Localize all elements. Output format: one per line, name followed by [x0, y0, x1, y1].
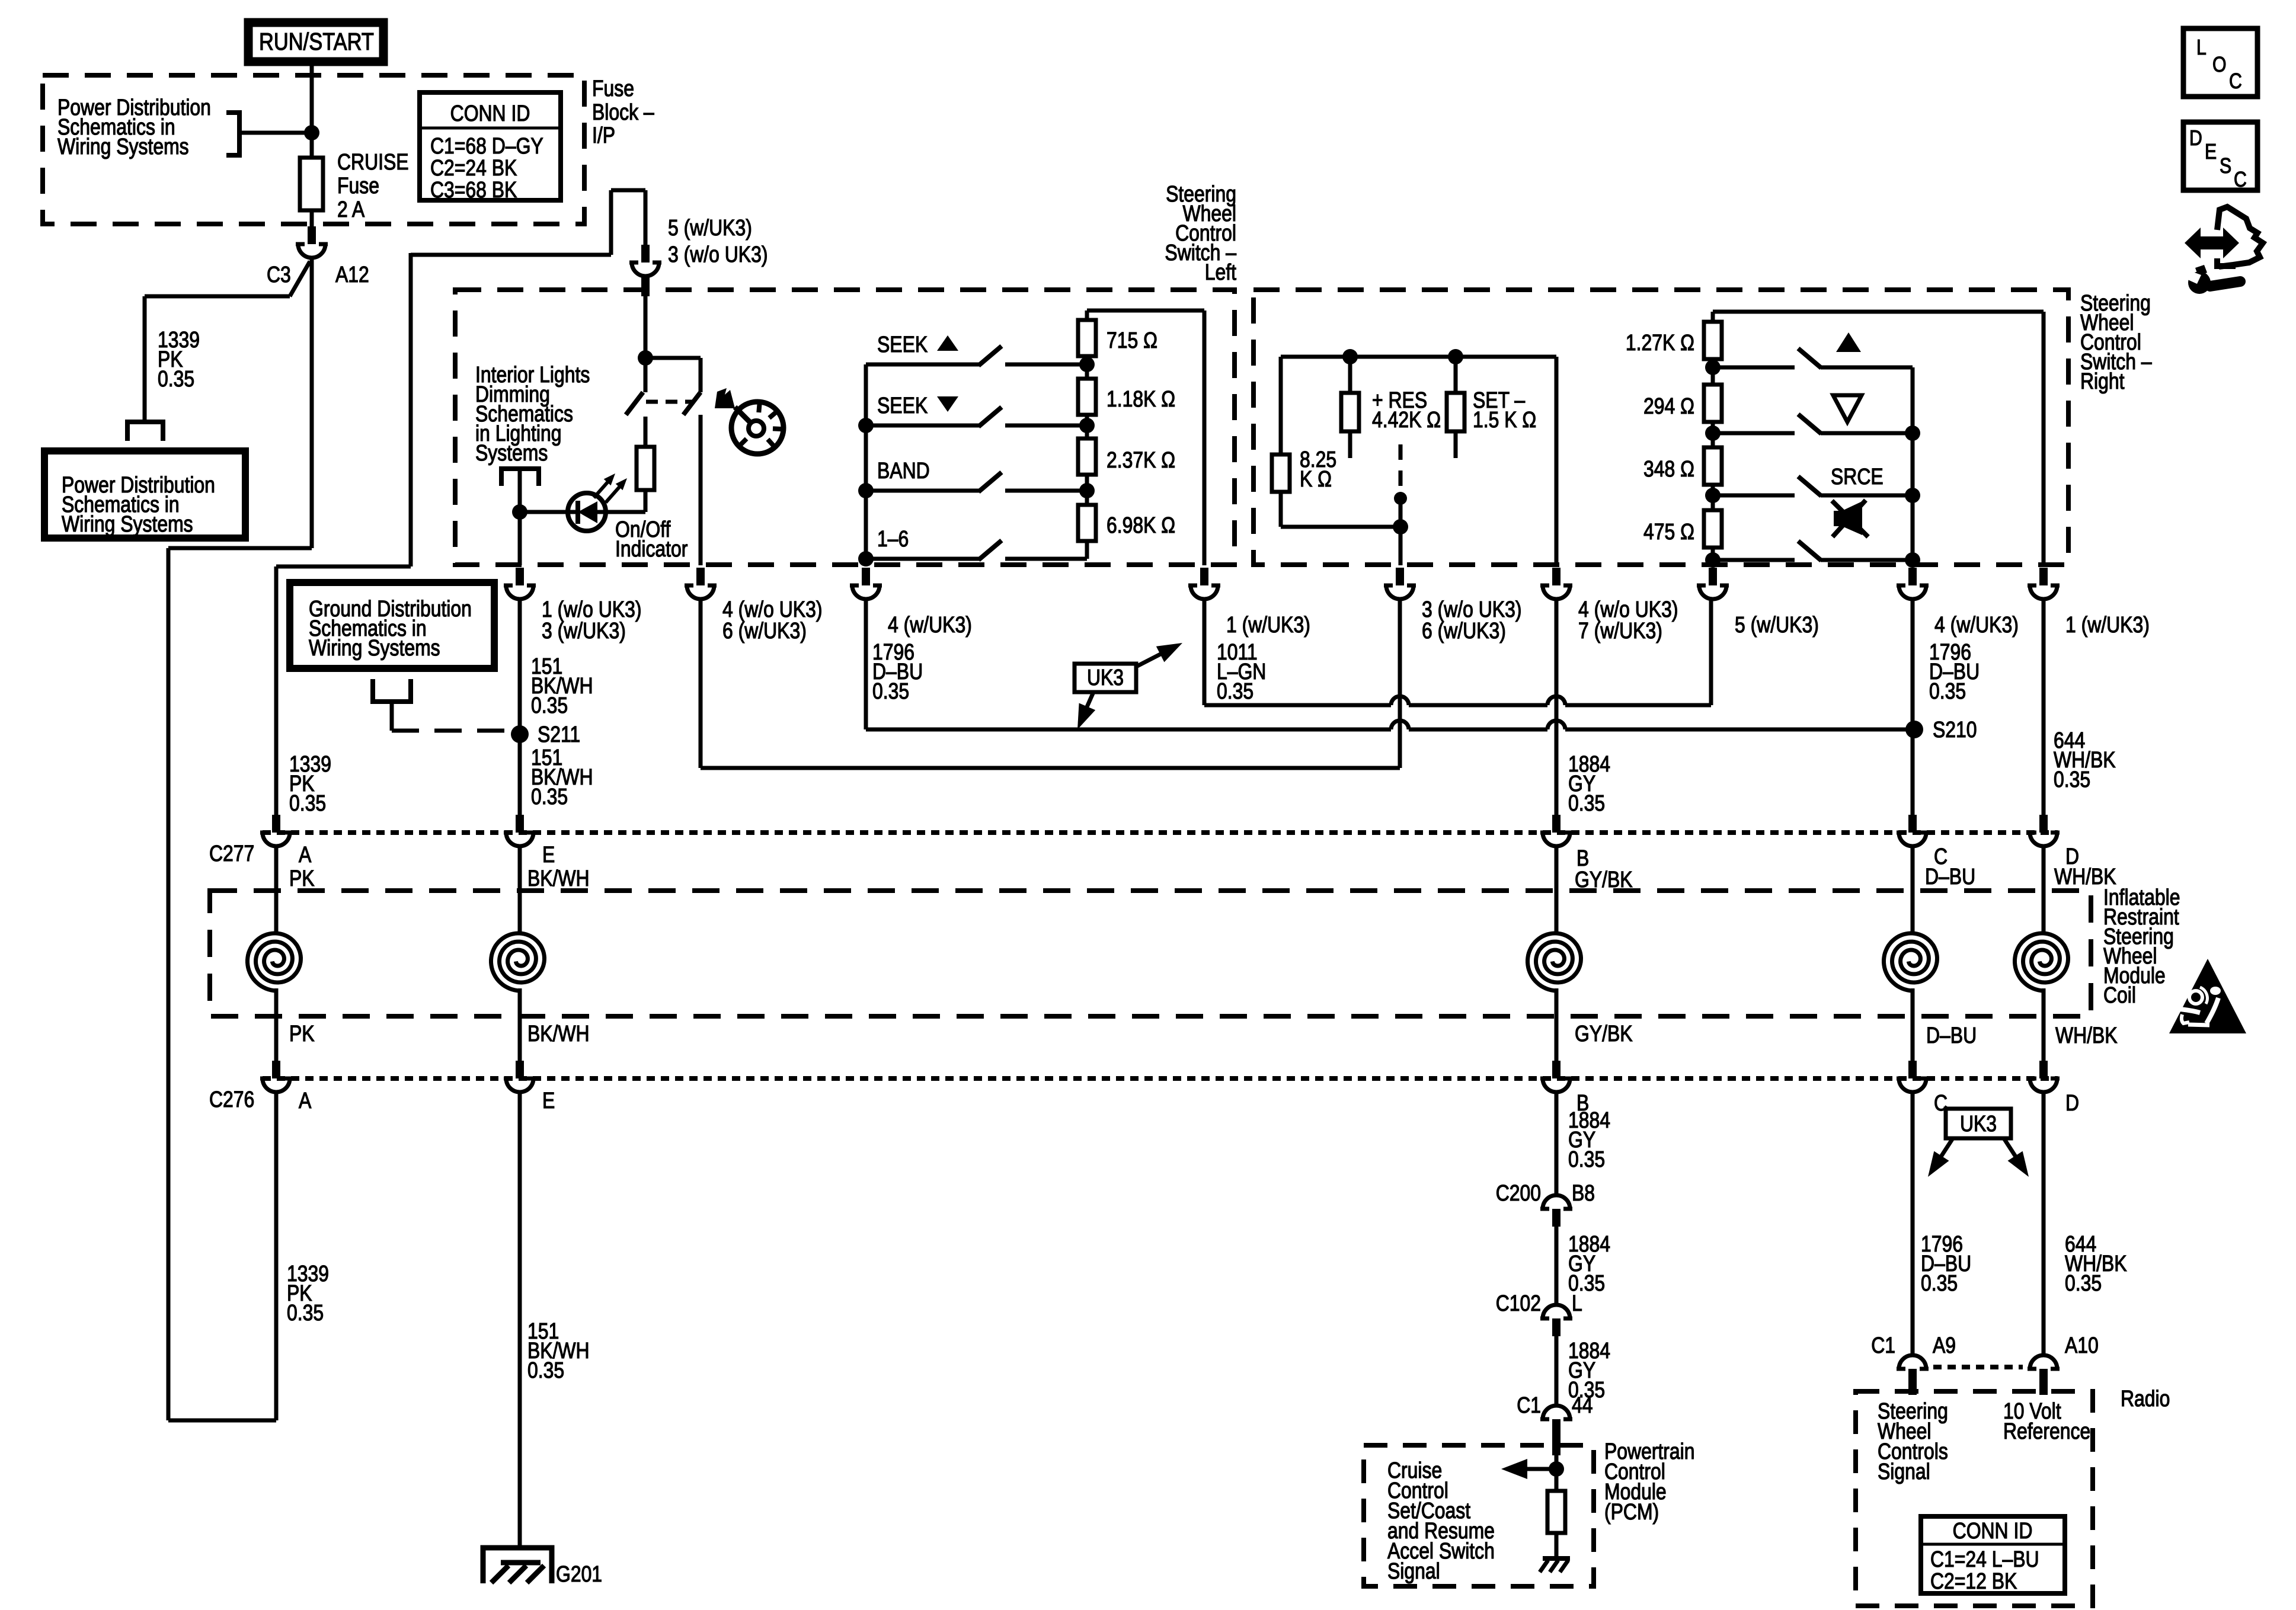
junction dot ladder 1.18K — [1079, 418, 1095, 433]
svg-text:PK: PK — [289, 866, 315, 891]
svg-text:BAND: BAND — [877, 458, 930, 483]
resistor 8.25K ohm — [1272, 454, 1290, 492]
connector C276 pin E — [504, 1061, 536, 1092]
resistor 1.18K ohm — [1078, 379, 1096, 415]
svg-text:7 (w/UK3): 7 (w/UK3) — [1578, 618, 1662, 643]
resistor 6.98K ohm — [1078, 505, 1096, 541]
junction dots right bus — [1905, 425, 1920, 441]
resistor 348 ohm — [1704, 447, 1722, 485]
power feed box RUN/START — [248, 23, 383, 62]
connector C3/A12 at fuse block — [296, 226, 328, 258]
wire right box right rail — [1555, 357, 1559, 565]
junction dot ladder 715 — [1079, 357, 1095, 372]
svg-text:294 Ω: 294 Ω — [1643, 393, 1694, 418]
wire A12 long left vertical — [167, 548, 171, 1420]
wire resistor to LED — [644, 490, 648, 512]
switch row mute — [1713, 558, 1795, 562]
svg-text:1.5 K Ω: 1.5 K Ω — [1473, 407, 1536, 432]
wire A12 jog left — [168, 546, 312, 550]
svg-text:SEEK: SEEK — [877, 393, 928, 418]
svg-text:C1=24 L–BU: C1=24 L–BU — [1930, 1547, 2039, 1571]
wire line3 link — [701, 766, 1400, 770]
connector pin 1 (w/o UK3) at x=877 — [504, 568, 536, 599]
svg-text:UK3: UK3 — [1087, 665, 1124, 690]
svg-text:S210: S210 — [1933, 717, 1977, 742]
svg-text:1 (w/UK3): 1 (w/UK3) — [2065, 612, 2150, 637]
wire ladder segment 2 — [1085, 425, 1089, 438]
svg-text:3 (w/UK3): 3 (w/UK3) — [542, 618, 626, 643]
svg-text:Coil: Coil — [2103, 982, 2136, 1007]
wire A12 bottom jog right — [168, 1419, 276, 1423]
wire line3 right pole down — [1398, 599, 1402, 768]
switch row 1-6 — [866, 557, 979, 561]
icon triangle down — [1833, 395, 1862, 422]
wire pole 4wUK3 down to C277-C — [1911, 599, 1915, 815]
linkage dashes cruise switch — [1399, 444, 1403, 497]
connector C276 pin D — [2028, 1061, 2060, 1092]
wire out of coil E — [518, 988, 522, 1061]
svg-text:Fuse: Fuse — [592, 76, 634, 101]
dashed box Steering Wheel Control Switch - Right — [1253, 290, 2068, 565]
svg-text:0.35: 0.35 — [531, 693, 568, 718]
svg-text:Wiring Systems: Wiring Systems — [309, 635, 440, 660]
junction dot rladder1 — [1705, 360, 1721, 375]
connector C276 pin C — [1897, 1061, 1929, 1092]
svg-text:0.35: 0.35 — [287, 1300, 324, 1325]
wire up to C276 pin A — [274, 1092, 279, 1420]
svg-text:C1: C1 — [1517, 1393, 1541, 1417]
wire 8.25K branch — [1279, 357, 1283, 454]
resistor on/off indicator — [637, 447, 654, 490]
junction dot rladder2 — [1705, 425, 1721, 441]
dimmer switch linkage dashes — [646, 400, 692, 404]
connector pin 4 (w/UK3) at x=3227 — [1897, 568, 1929, 599]
wire 1339 PK horizontal — [145, 295, 290, 299]
svg-text:E: E — [2205, 140, 2217, 164]
resistor 2.37K ohm — [1078, 438, 1096, 475]
svg-text:Indicator: Indicator — [615, 536, 688, 561]
svg-text:D: D — [2065, 1090, 2079, 1115]
svg-text:C200: C200 — [1496, 1180, 1541, 1205]
icon triangle up — [1836, 332, 1861, 352]
wire switch feed jog to C277-A — [276, 565, 411, 569]
svg-text:D–BU: D–BU — [1925, 864, 1975, 889]
wire pole 4/7 down to C277-B — [1555, 599, 1559, 815]
connector pin 5 (w/UK3) at x=2890 — [1697, 568, 1729, 599]
wire out of coil C — [1911, 988, 1915, 1061]
reference bracket to power distribution box — [127, 422, 163, 441]
UK3 callout box — [1075, 664, 1136, 692]
switch row volume down — [1713, 431, 1795, 436]
junction dot dimmer feed — [638, 350, 653, 366]
gauge icon (dimming) — [731, 402, 784, 454]
wire resistor to chassis ground — [1555, 1533, 1559, 1558]
wire seek bus vertical — [864, 364, 868, 565]
wire SET lower stub — [1454, 431, 1458, 458]
svg-text:Systems: Systems — [475, 440, 548, 465]
svg-text:5 (w/UK3): 5 (w/UK3) — [1735, 612, 1819, 637]
svg-text:K Ω: K Ω — [1300, 466, 1332, 491]
wire into coil B — [1555, 846, 1559, 932]
svg-text:Right: Right — [2080, 369, 2125, 393]
svg-text:RUN/START: RUN/START — [259, 28, 374, 55]
UK3 arrow upper — [1136, 646, 1176, 667]
wire dimmer right pole down — [699, 415, 703, 565]
svg-text:C3=68 BK: C3=68 BK — [430, 177, 517, 202]
reference bracket ground distribution — [373, 679, 411, 702]
svg-text:0.35: 0.35 — [158, 366, 194, 391]
wire rladder seg2 — [1711, 422, 1715, 447]
svg-text:A: A — [299, 842, 312, 867]
resistor PCM pullup — [1547, 1491, 1565, 1533]
svg-text:5 (w/UK3): 5 (w/UK3) — [668, 215, 752, 240]
wire C200 to C102 — [1555, 1227, 1559, 1305]
switch row SRCE — [1713, 494, 1795, 498]
connector radio C1 pin A9 — [1897, 1355, 1929, 1387]
LED on/off indicator — [568, 493, 606, 531]
chassis ground PCM — [1543, 1556, 1570, 1561]
svg-text:0.35: 0.35 — [2065, 1270, 2102, 1295]
svg-text:PK: PK — [289, 1021, 315, 1046]
wire E to ground G201 — [518, 1092, 522, 1549]
junction dot rladder4 — [1705, 552, 1721, 568]
svg-text:0.35: 0.35 — [527, 1358, 564, 1382]
wire switch feed vertical left — [409, 253, 413, 566]
dashed box Steering Wheel Control Switch - Left — [455, 290, 1235, 565]
dotted line C277 harness — [263, 830, 2058, 835]
wire line3 left pole down — [699, 599, 703, 768]
resistor 475 ohm — [1704, 510, 1722, 548]
icon DESC box — [2183, 122, 2257, 190]
connector C277 pin A — [260, 815, 292, 846]
svg-text:Signal: Signal — [1387, 1558, 1440, 1583]
wire right ladder top — [1711, 312, 1715, 322]
icon double arrow with component outline — [2185, 228, 2239, 258]
svg-text:E: E — [542, 842, 555, 867]
wire 8.25K to common — [1279, 492, 1283, 527]
resistor +RES 4.42K — [1341, 393, 1359, 431]
junction dot rladder3 — [1705, 488, 1721, 503]
svg-text:1 (w/UK3): 1 (w/UK3) — [1226, 612, 1310, 637]
svg-text:UK3: UK3 — [1960, 1111, 1997, 1136]
junction dot ladder 2.37K — [1079, 483, 1095, 498]
wire SET branch — [1454, 357, 1458, 393]
svg-text:1.18K Ω: 1.18K Ω — [1107, 386, 1175, 411]
wire dimmer right branch — [645, 356, 701, 360]
connector C277 pin C — [1897, 815, 1929, 846]
wire switch feed up jog — [609, 190, 613, 255]
svg-text:4.42K Ω: 4.42K Ω — [1372, 407, 1441, 432]
switch row SEEK down — [866, 424, 979, 428]
wire rladder seg3 — [1711, 485, 1715, 510]
connector C102 pin L — [1540, 1305, 1572, 1336]
svg-text:S: S — [2220, 155, 2231, 178]
svg-text:Fuse: Fuse — [337, 173, 379, 198]
junction dot PCM signal — [1549, 1461, 1564, 1477]
svg-text:GY/BK: GY/BK — [1575, 1021, 1633, 1046]
svg-text:Block –: Block – — [592, 100, 654, 124]
svg-text:L: L — [2196, 36, 2207, 60]
wire line1 5-pole down — [1709, 599, 1713, 705]
svg-text:3 (w/o UK3): 3 (w/o UK3) — [668, 242, 768, 267]
wire ladder segment 1 — [1085, 364, 1089, 379]
coil A (SDM coil) — [248, 933, 301, 991]
svg-text:715 Ω: 715 Ω — [1107, 328, 1157, 353]
terminal stub at left box edge — [641, 277, 650, 296]
svg-text:Left: Left — [1205, 260, 1236, 284]
svg-text:2 A: 2 A — [337, 197, 365, 222]
svg-text:Reference: Reference — [2003, 1419, 2090, 1443]
junction dot SET — [1448, 349, 1463, 364]
svg-text:C1=68 D–GY: C1=68 D–GY — [430, 133, 543, 158]
svg-text:0.35: 0.35 — [1568, 790, 1605, 815]
svg-text:C: C — [2234, 168, 2247, 192]
svg-text:C2=24 BK: C2=24 BK — [430, 155, 517, 180]
svg-text:O: O — [2212, 53, 2227, 77]
wire ladder segment 3 — [1085, 491, 1089, 505]
svg-text:1.27K Ω: 1.27K Ω — [1626, 330, 1694, 355]
wire D to radio A10 — [2042, 1092, 2046, 1356]
wire line1 1011 L-GN — [1204, 703, 1391, 708]
junction dot linkage — [1394, 492, 1407, 505]
svg-text:A10: A10 — [2065, 1333, 2099, 1358]
svg-text:E: E — [542, 1088, 555, 1113]
svg-text:CONN ID: CONN ID — [450, 101, 530, 126]
resistor 715 ohm — [1085, 356, 1089, 364]
icon mute speaker — [1834, 501, 1862, 535]
svg-text:(PCM): (PCM) — [1604, 1499, 1659, 1524]
svg-text:A: A — [299, 1088, 312, 1113]
wire pole 1/3 to S211 — [518, 599, 522, 815]
UK3 arrow lower — [1080, 692, 1093, 723]
coil D (SDM coil) — [2015, 933, 2068, 991]
svg-text:C276: C276 — [209, 1087, 254, 1112]
reference box Ground Distribution Schematics in Wiring Systems — [290, 582, 494, 668]
wire line2 1796 D-BU — [866, 728, 1391, 732]
reference box Power Distribution Schematics in Wiring Systems — [44, 451, 245, 538]
wire +RES lower stub — [1348, 431, 1352, 458]
switch row volume up — [1713, 366, 1795, 370]
junction dots seek bus — [858, 418, 874, 433]
svg-text:B8: B8 — [1572, 1180, 1595, 1205]
svg-text:Wiring Systems: Wiring Systems — [57, 134, 189, 159]
switch row SEEK up — [866, 363, 979, 367]
svg-text:Radio: Radio — [2121, 1386, 2170, 1411]
svg-text:0.35: 0.35 — [531, 784, 568, 809]
svg-text:475 Ω: 475 Ω — [1643, 519, 1694, 544]
wire 1339 PK vertical — [143, 296, 147, 422]
connector C200 pin B8 — [1540, 1195, 1572, 1227]
terminal stub at PCM box edge — [1552, 1436, 1560, 1455]
wire blade to on/off resistor — [644, 417, 648, 447]
wire RUN/START to fuse — [310, 60, 314, 158]
wire line1 1011 pole down — [1203, 599, 1207, 705]
wire into coil D — [2042, 846, 2046, 932]
svg-text:A9: A9 — [1933, 1333, 1956, 1358]
svg-text:BK/WH: BK/WH — [527, 866, 590, 891]
svg-text:C1: C1 — [1871, 1333, 1895, 1358]
wire C102 to C1 — [1555, 1336, 1559, 1406]
wire 1339 PK diagonal from C3 — [290, 261, 310, 296]
svg-text:0.35: 0.35 — [289, 790, 326, 815]
wire C to radio C1/A9 — [1911, 1092, 1915, 1356]
connector C277 pin D — [2028, 815, 2060, 846]
wire C1 into PCM — [1555, 1437, 1559, 1491]
node junction dot at fuse feed — [304, 125, 319, 140]
dashed box Radio — [1856, 1391, 2093, 1606]
svg-text:0.35: 0.35 — [1568, 1147, 1605, 1172]
svg-text:0.35: 0.35 — [1921, 1270, 1958, 1295]
connector C277 pin E — [504, 815, 536, 846]
connector radio pin A10 — [2028, 1355, 2060, 1387]
connector pin 4 (w/UK3) at x=1461 — [850, 568, 882, 599]
wire A9 stub into radio — [1908, 1385, 1917, 1395]
resistor 294 ohm — [1704, 385, 1722, 422]
dashed box Powertrain Control Module — [1364, 1445, 1594, 1586]
connector pin 1 (w/UK3) at x=2032 — [1188, 568, 1220, 599]
connector C1 pin 44 (PCM) — [1540, 1406, 1572, 1437]
wire out of coil D — [2042, 988, 2046, 1061]
splice S210 — [1905, 721, 1923, 738]
dimmer switch blade left — [626, 392, 643, 415]
svg-text:Signal: Signal — [1878, 1459, 1930, 1484]
wire out of coil B — [1555, 988, 1559, 1061]
resistor 1.27K ohm — [1704, 322, 1722, 359]
svg-text:C: C — [2229, 70, 2242, 94]
wire A10 stub into radio — [2039, 1385, 2048, 1395]
connector 5 (w/UK3) input — [629, 245, 661, 276]
wire right box top rail — [1281, 355, 1556, 359]
wire pole 1wUK3 down to C277-D — [2042, 599, 2046, 815]
svg-text:4 (w/UK3): 4 (w/UK3) — [888, 612, 972, 637]
svg-text:0.35: 0.35 — [2054, 767, 2090, 792]
wire PCM arrow branch — [1521, 1467, 1556, 1471]
svg-text:CONN ID: CONN ID — [1953, 1518, 2033, 1543]
icon LOC box — [2183, 28, 2257, 97]
wire fuse to C3 connector — [310, 210, 314, 228]
connector pin 3 (w/o UK3) at x=2362 — [1384, 568, 1416, 599]
connector C277 pin B — [1540, 815, 1572, 846]
wire rladder seg1 — [1711, 359, 1715, 385]
arrowhead PCM signal — [1501, 1459, 1527, 1479]
CONN ID table (radio) — [1921, 1516, 2065, 1593]
wire right rows bus — [1911, 367, 1915, 565]
svg-text:6 (w/UK3): 6 (w/UK3) — [722, 618, 807, 643]
wire B to C200 — [1555, 1092, 1559, 1195]
coil C (SDM coil) — [1884, 933, 1937, 991]
svg-text:1–6: 1–6 — [877, 526, 909, 551]
svg-text:C2=12 BK: C2=12 BK — [1930, 1569, 2017, 1593]
svg-text:L: L — [1572, 1291, 1582, 1315]
wire into coil A — [274, 846, 279, 932]
connector pin 4 (w/o UK3) at x=1182 — [685, 568, 717, 599]
svg-text:348 Ω: 348 Ω — [1643, 456, 1694, 481]
junction dot +RES — [1342, 349, 1358, 364]
wire +RES branch — [1348, 357, 1352, 393]
svg-text:2.37K Ω: 2.37K Ω — [1107, 447, 1175, 472]
connector C276 pin A — [260, 1061, 292, 1092]
dashed box Inflatable Restraint Steering Wheel Module Coil — [210, 891, 2091, 1016]
junction dot cruise common — [1393, 519, 1408, 534]
svg-text:WH/BK: WH/BK — [2055, 1023, 2118, 1048]
fuse CRUISE Fuse 2A — [300, 158, 323, 210]
wire rladder bottom — [1711, 548, 1715, 565]
wire LED to bracket junction — [519, 510, 568, 514]
svg-text:CRUISE: CRUISE — [337, 149, 409, 174]
wire connector5 into dimmer — [644, 276, 648, 358]
wire cruise common down — [1399, 498, 1403, 565]
reference bracket (power distribution) — [226, 113, 239, 155]
svg-text:6 (w/UK3): 6 (w/UK3) — [1422, 618, 1506, 643]
UK3 callout box (radio) — [1946, 1109, 2011, 1138]
dotted line C276 harness — [263, 1076, 2058, 1081]
connector pin 1 (w/UK3) at x=3448 — [2028, 568, 2060, 599]
icon wrench — [2188, 271, 2211, 294]
fuse block dashed box (Fuse Block - I/P) — [43, 75, 584, 224]
svg-text:C102: C102 — [1496, 1291, 1541, 1315]
wire ladder top link — [1085, 311, 1089, 320]
CONN ID table (fuse block) — [420, 92, 561, 200]
airbag warning triangle — [2169, 959, 2246, 1033]
wire into coil C — [1911, 846, 1915, 932]
wire into coil E — [518, 846, 522, 932]
coil B (SDM coil) — [1528, 933, 1581, 991]
ground G201 symbol — [483, 1548, 552, 1583]
wire switch feed to connector 5 — [644, 190, 648, 245]
svg-text:0.35: 0.35 — [1929, 678, 1966, 703]
wire switch feed top horizontal — [411, 253, 611, 257]
wire line2 pole down — [864, 599, 868, 729]
svg-text:C3: C3 — [267, 262, 291, 287]
junction dot LED left — [512, 504, 527, 520]
coil E (SDM coil) — [491, 933, 545, 991]
UK3 radio arrow left — [1932, 1138, 1953, 1170]
svg-text:A12: A12 — [335, 262, 369, 287]
svg-text:I/P: I/P — [592, 123, 615, 148]
wire dimmer left pole — [644, 358, 648, 392]
svg-text:G201: G201 — [556, 1561, 602, 1586]
svg-text:BK/WH: BK/WH — [527, 1021, 590, 1046]
svg-text:6.98K Ω: 6.98K Ω — [1107, 513, 1175, 537]
svg-text:44: 44 — [1572, 1393, 1593, 1417]
svg-text:D: D — [2189, 127, 2202, 151]
reference bracket interior lights dimming — [501, 469, 539, 486]
UK3 radio arrow right — [2004, 1138, 2025, 1170]
svg-text:SEEK: SEEK — [877, 332, 928, 357]
connector pin 4 (w/o UK3) at x=2626 — [1540, 568, 1572, 599]
wire dimmer output down — [518, 512, 522, 565]
svg-text:SRCE: SRCE — [1831, 464, 1884, 489]
svg-text:4 (w/UK3): 4 (w/UK3) — [1934, 612, 2019, 637]
switch row BAND — [866, 489, 979, 493]
wire out of coil A — [274, 988, 279, 1061]
wire bracket to fuse wire — [239, 131, 312, 135]
connector C276 pin B — [1540, 1061, 1572, 1092]
wire A12 feed down — [310, 258, 314, 548]
svg-text:Wiring Systems: Wiring Systems — [62, 511, 193, 536]
svg-text:S211: S211 — [538, 722, 580, 747]
dotted link A9-A10 — [1933, 1365, 2023, 1369]
resistor SET 1.5K — [1447, 393, 1464, 431]
svg-text:C277: C277 — [209, 841, 254, 866]
dimmer switch blade right — [683, 392, 701, 415]
svg-text:0.35: 0.35 — [1217, 678, 1253, 703]
splice S211 — [511, 725, 529, 743]
svg-text:0.35: 0.35 — [872, 678, 909, 703]
svg-text:D–BU: D–BU — [1926, 1023, 1977, 1048]
dashed link bracket to S211 — [392, 729, 507, 733]
